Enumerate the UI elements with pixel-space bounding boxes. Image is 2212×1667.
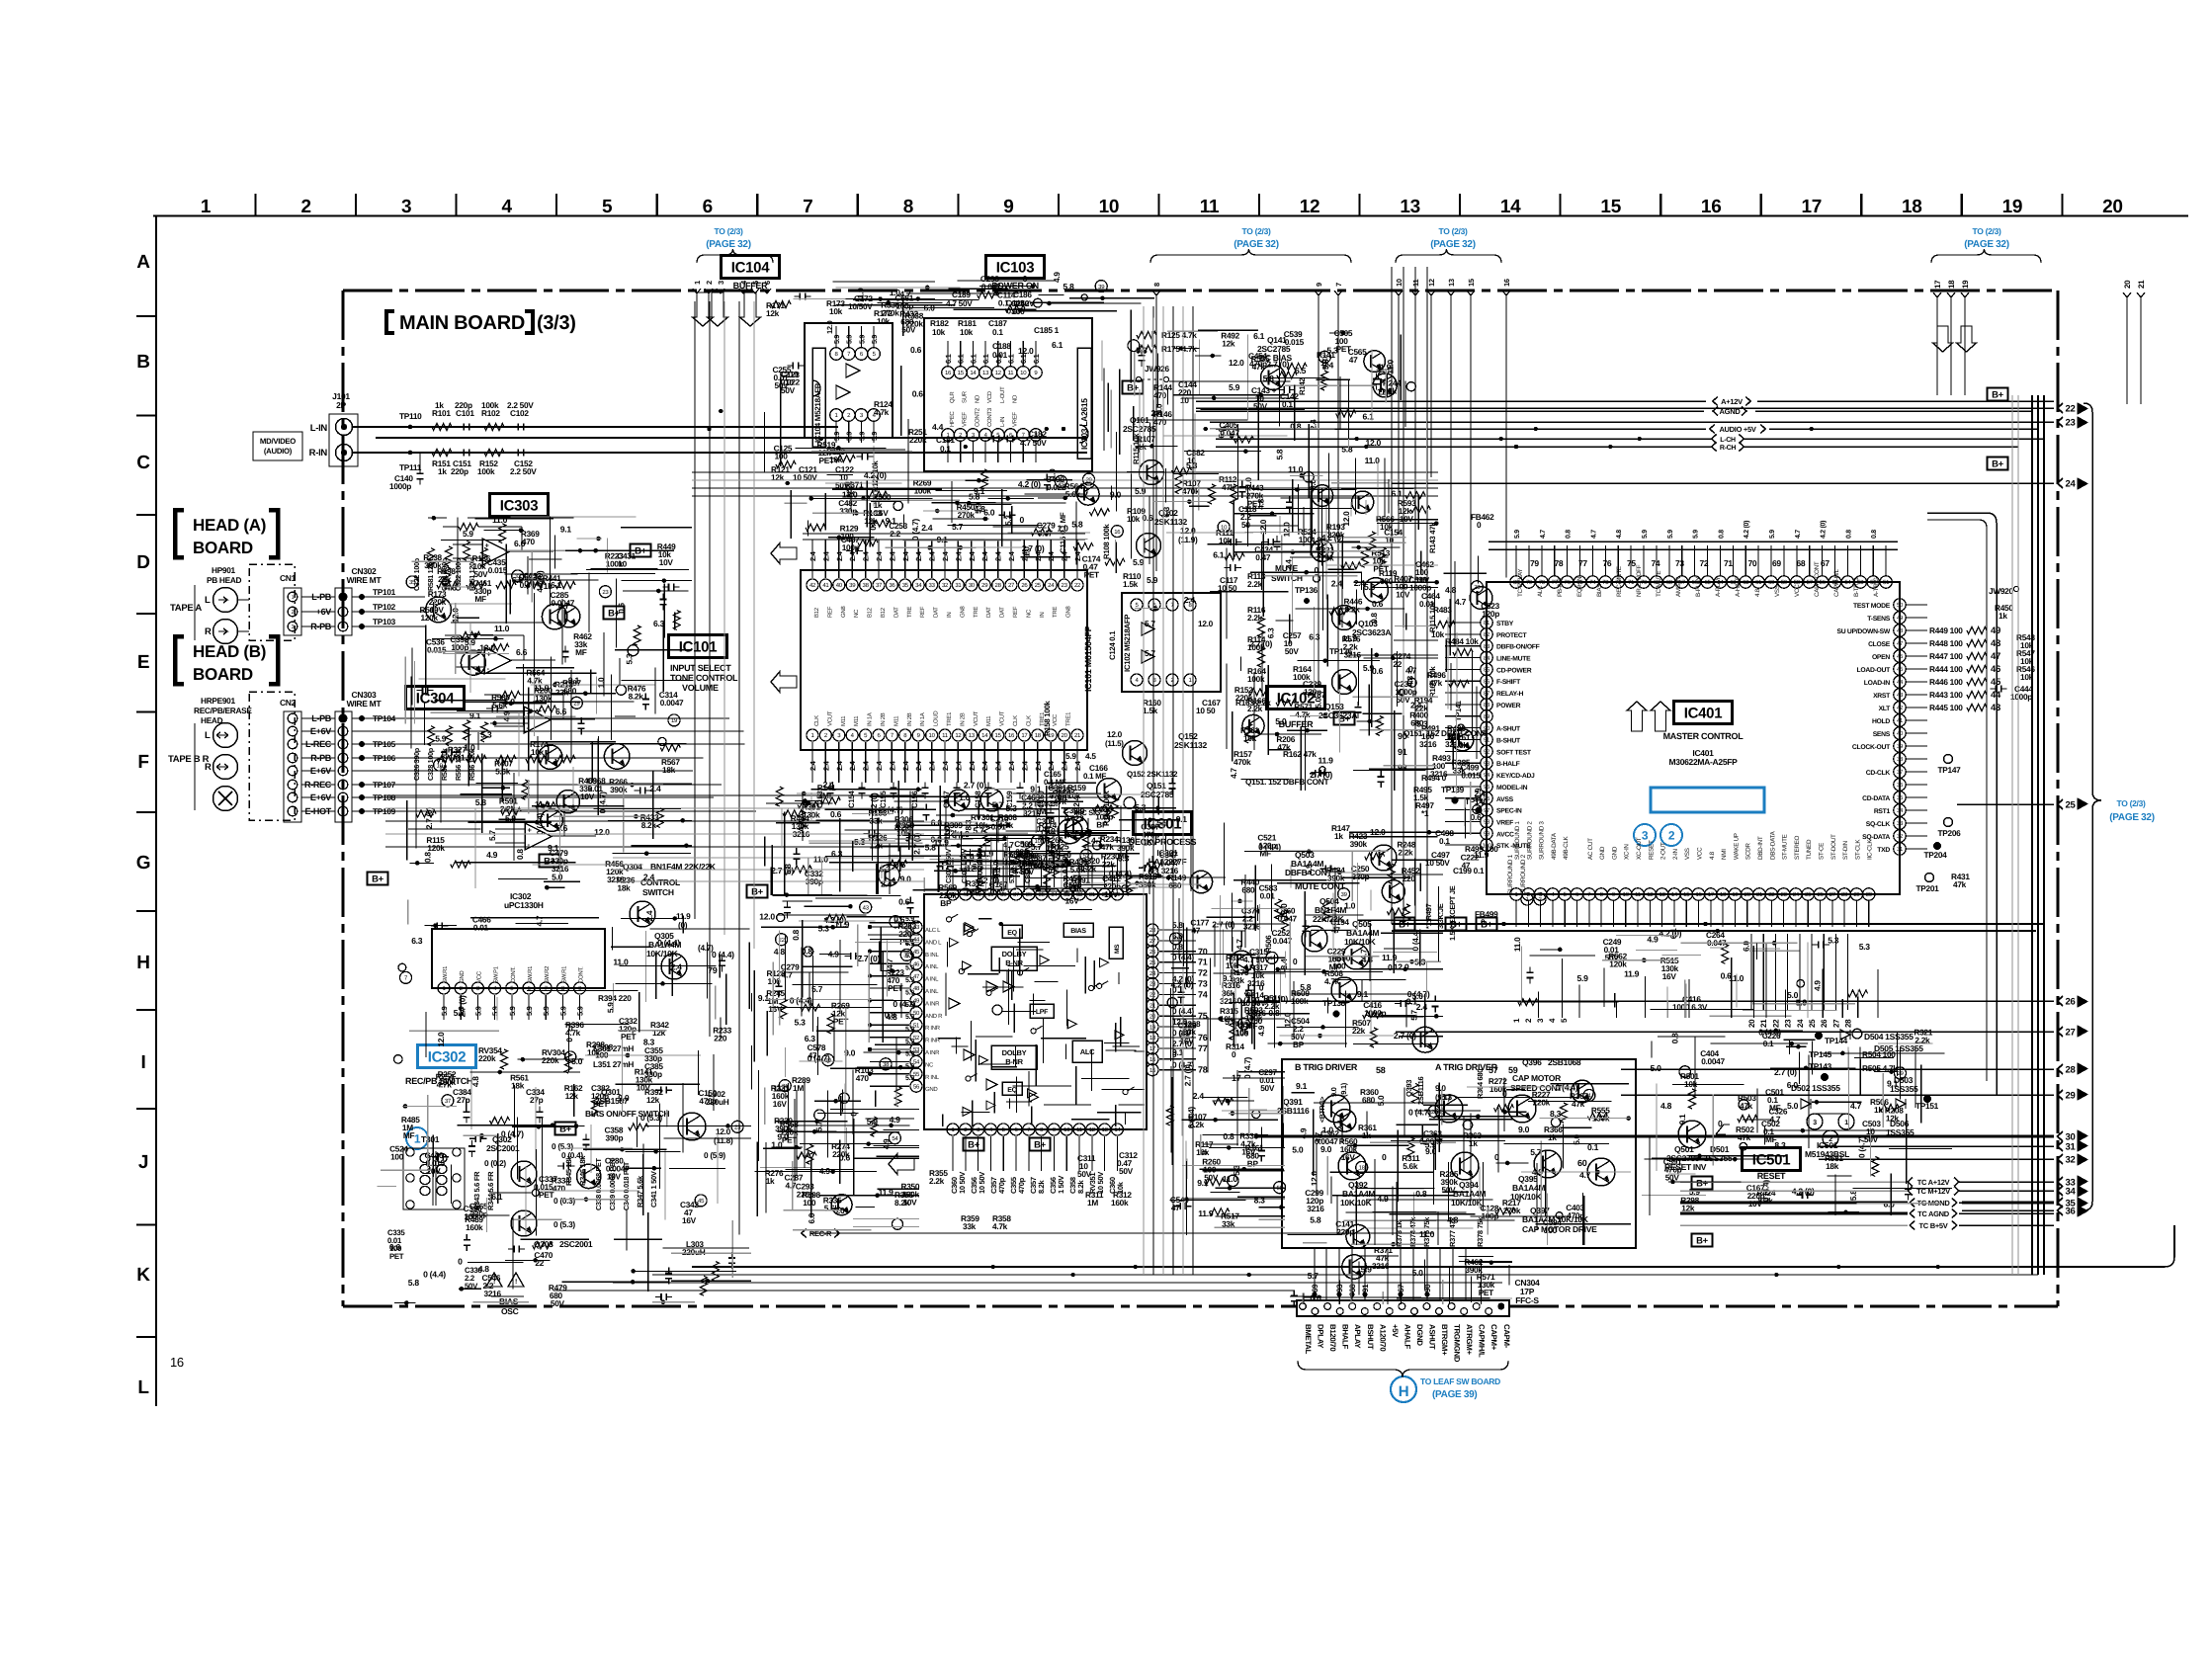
svg-text:40: 40: [1897, 730, 1904, 737]
svg-text:10: 10: [1180, 395, 1189, 405]
svg-text:C: C: [136, 453, 150, 473]
svg-text:6.3: 6.3: [805, 1034, 816, 1043]
svg-text:28: 28: [2066, 1064, 2076, 1075]
svg-text:100: 100: [390, 1151, 404, 1161]
svg-text:37: 37: [876, 582, 883, 589]
svg-text:17: 17: [1708, 891, 1715, 898]
svg-text:6.1: 6.1: [491, 1192, 503, 1202]
svg-text:NC: NC: [925, 1061, 934, 1068]
svg-text:IN 2B: IN 2B: [959, 712, 966, 726]
svg-text:34: 34: [2066, 1186, 2077, 1197]
svg-text:L-OUT: L-OUT: [999, 386, 1006, 403]
svg-text:XC-IN: XC-IN: [1624, 844, 1631, 860]
svg-text:DAT: DAT: [933, 607, 940, 618]
svg-text:B+: B+: [1127, 382, 1140, 393]
svg-text:R INR: R INR: [925, 1025, 941, 1032]
svg-text:XRST: XRST: [1873, 693, 1891, 700]
svg-text:2.7 (0): 2.7 (0): [1022, 543, 1045, 553]
svg-text:CONT2: CONT2: [974, 407, 980, 427]
svg-text:DBS-DATA: DBS-DATA: [1769, 830, 1776, 860]
svg-text:Q152 2SK1132: Q152 2SK1132: [1127, 770, 1178, 779]
svg-text:9.0: 9.0: [1329, 1087, 1338, 1097]
svg-text:0.0047: 0.0047: [660, 698, 684, 708]
svg-text:6.0: 6.0: [983, 508, 995, 518]
svg-text:130k: 130k: [439, 1077, 457, 1087]
svg-text:0 (4.4): 0 (4.4): [423, 1269, 446, 1279]
svg-text:68: 68: [1666, 579, 1673, 586]
svg-text:58: 58: [1376, 1065, 1386, 1075]
svg-text:33: 33: [1897, 820, 1904, 827]
svg-text:CN1: CN1: [280, 573, 297, 583]
svg-text:uPC1330H: uPC1330H: [504, 900, 544, 910]
svg-text:12.0: 12.0: [1283, 1012, 1293, 1028]
svg-text:13: 13: [1102, 1126, 1109, 1133]
svg-text:50: 50: [1897, 602, 1904, 609]
svg-text:6.3: 6.3: [1266, 627, 1276, 638]
svg-text:5.9: 5.9: [1361, 1264, 1373, 1274]
svg-text:47: 47: [1462, 860, 1471, 870]
svg-text:5.8: 5.8: [408, 1278, 420, 1288]
svg-text:3.3K:JE: 3.3K:JE: [1436, 903, 1445, 929]
svg-text:45: 45: [1897, 666, 1904, 673]
svg-text:R143 47k: R143 47k: [1428, 522, 1437, 553]
svg-text:MF: MF: [403, 1130, 415, 1140]
svg-text:35: 35: [1039, 891, 1046, 898]
svg-text:CONT3: CONT3: [986, 407, 993, 427]
svg-text:5.3: 5.3: [1441, 1092, 1453, 1102]
svg-text:20: 20: [1744, 891, 1751, 898]
svg-text:26: 26: [1021, 582, 1028, 589]
svg-text:(PAGE 32): (PAGE 32): [1234, 239, 1278, 250]
svg-text:83: 83: [1484, 643, 1490, 650]
svg-text:84: 84: [1484, 655, 1490, 662]
svg-text:12.0: 12.0: [759, 912, 775, 922]
svg-text:1.0: 1.0: [596, 677, 606, 688]
svg-text:78: 78: [1539, 579, 1546, 586]
svg-text:0 (4.4): 0 (4.4): [712, 950, 734, 959]
svg-text:SW.R1: SW.R1: [560, 965, 567, 983]
svg-text:98: 98: [1484, 819, 1490, 826]
svg-text:470p: 470p: [699, 1096, 717, 1106]
svg-text:26: 26: [1820, 1019, 1829, 1028]
svg-text:STEREO: STEREO: [1794, 836, 1801, 860]
svg-text:680: 680: [967, 886, 980, 896]
svg-text:88: 88: [1484, 702, 1490, 708]
svg-text:10V: 10V: [580, 792, 595, 801]
svg-text:DOLBY: DOLBY: [1002, 950, 1027, 959]
svg-text:B: B: [136, 352, 149, 373]
svg-text:5.8: 5.8: [1172, 920, 1183, 930]
svg-text:9.1: 9.1: [1197, 1178, 1209, 1188]
svg-text:IN 1A: IN 1A: [867, 712, 874, 726]
svg-text:(PAGE 32): (PAGE 32): [2109, 812, 2154, 823]
svg-text:10: 10: [437, 762, 444, 769]
svg-text:0.01: 0.01: [473, 922, 489, 932]
svg-text:1: 1: [414, 1132, 421, 1146]
svg-text:160k: 160k: [1111, 1198, 1129, 1208]
svg-text:2.4: 2.4: [921, 523, 933, 533]
svg-text:R-IN: R-IN: [309, 448, 328, 458]
svg-text:8.2k: 8.2k: [1076, 1179, 1085, 1194]
svg-text:4.9: 4.9: [486, 850, 498, 860]
svg-text:2SK1132: 2SK1132: [1174, 740, 1207, 750]
svg-text:C185 1: C185 1: [1034, 325, 1060, 335]
svg-text:16V: 16V: [1662, 971, 1677, 981]
svg-text:10 50V: 10 50V: [978, 1172, 986, 1194]
svg-text:11.0: 11.0: [1419, 1229, 1435, 1239]
svg-text:HEAD (A): HEAD (A): [193, 516, 266, 535]
svg-text:(PAGE 39): (PAGE 39): [1432, 1389, 1477, 1400]
svg-text:5.0: 5.0: [1292, 1145, 1304, 1155]
svg-text:5.7: 5.7: [952, 522, 964, 532]
svg-text:5.6k: 5.6k: [1403, 1161, 1418, 1171]
svg-text:10k: 10k: [1127, 514, 1141, 524]
svg-text:16: 16: [1701, 197, 1722, 217]
svg-text:VCUT: VCUT: [973, 710, 979, 726]
svg-text:50V: 50V: [901, 325, 916, 335]
svg-text:120p: 120p: [1304, 687, 1321, 697]
svg-text:70: 70: [1748, 558, 1757, 568]
svg-text:12: 12: [995, 370, 1002, 376]
svg-text:0.8: 0.8: [802, 946, 813, 956]
svg-text:0.8: 0.8: [1223, 1131, 1234, 1141]
svg-text:87: 87: [1484, 690, 1490, 697]
svg-text:E: E: [137, 652, 149, 673]
svg-text:MF: MF: [575, 647, 587, 657]
svg-text:5.9: 5.9: [1693, 530, 1700, 539]
svg-text:470p: 470p: [997, 1177, 1006, 1194]
svg-text:9.0: 9.0: [1320, 1144, 1332, 1154]
svg-text:A INR: A INR: [925, 1049, 940, 1056]
svg-text:5.9: 5.9: [1514, 530, 1521, 539]
svg-text:24: 24: [1793, 891, 1800, 898]
svg-text:70: 70: [1198, 947, 1208, 957]
svg-text:470: 470: [553, 1184, 566, 1194]
svg-text:2.4: 2.4: [1283, 559, 1293, 570]
svg-text:GND: GND: [925, 1086, 938, 1093]
svg-text:TEST MODE: TEST MODE: [1853, 603, 1891, 610]
svg-text:100: 100: [1299, 535, 1313, 544]
svg-text:0.8: 0.8: [1845, 530, 1852, 539]
svg-text:16: 16: [170, 1355, 184, 1370]
svg-text:JW920: JW920: [1989, 586, 2013, 596]
svg-text:CAPM-CONT: CAPM-CONT: [1814, 561, 1821, 597]
svg-text:6: 6: [763, 281, 772, 285]
svg-text:0 (5.3): 0 (5.3): [553, 1219, 575, 1229]
svg-text:23: 23: [602, 589, 609, 596]
svg-text:17: 17: [1802, 197, 1823, 217]
svg-text:R444 100: R444 100: [1929, 664, 1963, 674]
svg-text:77: 77: [1198, 1043, 1208, 1053]
svg-text:23: 23: [1784, 1019, 1793, 1028]
svg-text:IC101: IC101: [679, 638, 718, 655]
svg-text:75: 75: [1627, 558, 1636, 568]
svg-text:SURROUND 2: SURROUND 2: [1520, 854, 1527, 894]
svg-text:4.7: 4.7: [1234, 939, 1244, 950]
svg-text:4.7k: 4.7k: [992, 1221, 1008, 1231]
svg-text:JW926: JW926: [1145, 364, 1169, 374]
svg-text:50: 50: [1241, 520, 1250, 530]
svg-text:GN8: GN8: [1065, 606, 1072, 618]
svg-text:470p: 470p: [1567, 1210, 1584, 1220]
svg-text:6.1: 6.1: [1253, 331, 1265, 341]
svg-text:50V: 50V: [1119, 1166, 1134, 1176]
svg-text:VREF: VREF: [962, 412, 969, 427]
svg-text:ST-CLK: ST-CLK: [1854, 839, 1861, 860]
svg-text:2SB1068: 2SB1068: [1548, 1057, 1581, 1067]
svg-text:78: 78: [1198, 1065, 1208, 1075]
svg-text:9.1: 9.1: [1223, 973, 1234, 983]
svg-text:74: 74: [1652, 558, 1660, 568]
svg-text:TONE CONTROL: TONE CONTROL: [670, 673, 738, 683]
svg-text:21: 21: [1756, 891, 1763, 898]
svg-text:0 (0.2): 0 (0.2): [484, 1158, 506, 1168]
svg-text:IC104: IC104: [731, 259, 770, 276]
svg-text:DBD-INT: DBD-INT: [1757, 836, 1764, 860]
svg-text:F: F: [137, 752, 148, 773]
svg-text:M30622MA-A25FP: M30622MA-A25FP: [1668, 757, 1738, 767]
svg-text:9.0: 9.0: [1153, 403, 1163, 414]
svg-text:2.7 (0): 2.7 (0): [424, 807, 434, 829]
svg-text:XLT: XLT: [1879, 706, 1892, 712]
svg-text:TO (2/3): TO (2/3): [714, 226, 743, 236]
svg-text:0 (5.9): 0 (5.9): [704, 1150, 725, 1160]
svg-text:TC A+12V: TC A+12V: [1917, 1178, 1950, 1187]
svg-text:35: 35: [902, 582, 909, 589]
svg-text:A-SHUT: A-SHUT: [1496, 726, 1521, 733]
svg-text:5.9: 5.9: [1577, 973, 1589, 983]
svg-text:1000p: 1000p: [389, 481, 411, 491]
svg-text:14: 14: [1114, 1126, 1121, 1133]
svg-text:TAPE B R: TAPE B R: [168, 754, 210, 765]
svg-text:B+: B+: [1696, 1235, 1709, 1246]
svg-text:5.6k: 5.6k: [1453, 740, 1469, 750]
svg-text:71: 71: [1724, 558, 1733, 568]
svg-text:PB-A/B: PB-A/B: [1557, 578, 1564, 597]
svg-text:PET: PET: [1084, 570, 1099, 580]
svg-text:0 (4.7): 0 (4.7): [1242, 1056, 1252, 1078]
svg-text:220p: 220p: [451, 466, 468, 476]
svg-text:AMS-IN: AMS-IN: [1675, 576, 1682, 597]
svg-text:10: 10: [1385, 535, 1394, 544]
svg-text:16: 16: [1114, 529, 1121, 536]
svg-text:4.7 50V: 4.7 50V: [1020, 438, 1047, 448]
svg-text:0.0047: 0.0047: [1701, 1056, 1725, 1066]
svg-text:2: 2: [705, 281, 714, 285]
svg-text:71: 71: [1628, 579, 1635, 586]
svg-text:5.8: 5.8: [475, 797, 487, 807]
svg-text:10V: 10V: [903, 1197, 918, 1207]
svg-text:390k: 390k: [1350, 839, 1368, 849]
svg-text:23: 23: [1781, 891, 1788, 898]
svg-text:4.9: 4.9: [890, 1115, 901, 1125]
svg-text:R483: R483: [1433, 605, 1452, 615]
svg-text:79: 79: [1526, 579, 1533, 586]
svg-text:39: 39: [1897, 743, 1904, 750]
svg-text:5.0: 5.0: [571, 1056, 583, 1066]
svg-text:T301: T301: [421, 1134, 440, 1144]
svg-text:11.9: 11.9: [1319, 755, 1334, 765]
svg-text:86: 86: [1484, 679, 1490, 686]
svg-text:60: 60: [1577, 1158, 1587, 1168]
svg-text:71: 71: [1198, 958, 1208, 967]
svg-text:1.0: 1.0: [1322, 1125, 1334, 1135]
svg-text:79: 79: [1530, 558, 1539, 568]
svg-text:10V: 10V: [430, 605, 445, 615]
svg-text:12k: 12k: [1886, 1113, 1900, 1123]
svg-text:TC B+5V: TC B+5V: [1919, 1221, 1948, 1230]
svg-text:5.0: 5.0: [1376, 1095, 1386, 1106]
svg-text:2P: 2P: [336, 400, 346, 410]
svg-text:ND: ND: [1012, 394, 1019, 403]
svg-text:EQ-H/N: EQ-H/N: [1576, 576, 1583, 597]
svg-text:BIAS: BIAS: [1596, 584, 1603, 597]
svg-text:12: 12: [1300, 197, 1320, 217]
svg-text:LOAD-OUT: LOAD-OUT: [1857, 667, 1892, 674]
svg-text:16: 16: [945, 370, 952, 376]
svg-text:A INR: A INR: [925, 1000, 940, 1007]
svg-text:RST1: RST1: [1874, 808, 1891, 815]
svg-text:94: 94: [1484, 772, 1490, 779]
svg-text:TAPE A: TAPE A: [170, 603, 202, 614]
svg-text:VSS: VSS: [1684, 848, 1691, 860]
svg-text:2.7 (0): 2.7 (0): [1249, 639, 1272, 649]
svg-text:27p: 27p: [457, 1095, 470, 1105]
svg-text:VCC: VCC: [1794, 584, 1801, 597]
svg-text:6.6: 6.6: [516, 647, 528, 657]
svg-text:TP101: TP101: [373, 587, 396, 597]
svg-text:37: 37: [1013, 891, 1020, 898]
svg-text:12.0: 12.0: [594, 827, 610, 837]
svg-text:VCC: VCC: [1052, 713, 1059, 726]
svg-text:A120/70: A120/70: [1378, 1324, 1387, 1352]
svg-text:1: 1: [292, 595, 295, 601]
svg-text:CLK: CLK: [1012, 715, 1019, 726]
svg-text:0: 0: [1388, 962, 1393, 972]
svg-text:47k: 47k: [1277, 742, 1291, 752]
svg-text:VCUT: VCUT: [999, 710, 1006, 726]
svg-text:55: 55: [913, 1071, 920, 1078]
svg-text:IC304: IC304: [416, 690, 455, 707]
svg-text:MF: MF: [1329, 962, 1341, 972]
svg-text:R346 18k: R346 18k: [578, 1155, 587, 1186]
svg-text:12k: 12k: [652, 1028, 666, 1038]
svg-text:9.0: 9.0: [1518, 1125, 1530, 1134]
svg-text:120k: 120k: [427, 843, 445, 853]
svg-text:5.9: 5.9: [905, 977, 914, 984]
svg-text:2.4: 2.4: [1410, 701, 1422, 710]
svg-text:47: 47: [808, 1050, 817, 1060]
svg-text:46: 46: [1897, 653, 1904, 660]
svg-text:TP103: TP103: [373, 617, 396, 626]
svg-text:A INL: A INL: [925, 963, 939, 970]
svg-text:B-NR: B-NR: [1005, 1057, 1023, 1066]
svg-text:IN 2B: IN 2B: [906, 712, 913, 726]
svg-text:TRGMGND: TRGMGND: [1453, 1324, 1462, 1363]
svg-text:C341 1 50V: C341 1 50V: [649, 1171, 658, 1208]
svg-text:7: 7: [1334, 283, 1343, 287]
svg-text:76: 76: [1198, 1033, 1208, 1042]
svg-text:25: 25: [1035, 582, 1042, 589]
svg-text:8: 8: [903, 197, 913, 217]
svg-text:49: 49: [1991, 625, 2000, 636]
svg-text:R INL: R INL: [925, 1074, 940, 1081]
svg-text:5.7: 5.7: [487, 830, 497, 841]
svg-text:220k: 220k: [478, 1053, 496, 1063]
svg-text:NC: NC: [853, 609, 860, 618]
svg-text:4.8: 4.8: [1660, 1101, 1672, 1111]
svg-text:47k: 47k: [1101, 842, 1115, 852]
svg-text:1000 6.3V: 1000 6.3V: [1672, 1002, 1708, 1012]
svg-text:SQ-DATA: SQ-DATA: [1862, 834, 1890, 841]
svg-text:D502 1SS355: D502 1SS355: [1791, 1083, 1840, 1093]
svg-text:14: 14: [1500, 197, 1521, 217]
svg-text:R108 100k: R108 100k: [1102, 524, 1111, 559]
svg-text:470: 470: [522, 537, 536, 546]
svg-text:STBY: STBY: [1496, 621, 1514, 627]
svg-text:WIRE MT: WIRE MT: [347, 575, 383, 585]
svg-text:PB HEAD: PB HEAD: [207, 575, 242, 585]
svg-text:WIRE MT: WIRE MT: [347, 699, 383, 708]
svg-text:0.8: 0.8: [791, 929, 801, 940]
svg-text:0.8: 0.8: [423, 852, 433, 863]
svg-text:CONT.: CONT.: [510, 966, 517, 983]
svg-text:4.7k: 4.7k: [527, 676, 543, 686]
svg-text:12: 12: [1647, 891, 1654, 898]
svg-text:1M: 1M: [1035, 806, 1046, 816]
svg-text:10V: 10V: [1400, 514, 1414, 524]
svg-text:28: 28: [1844, 1019, 1853, 1028]
svg-text:1.0: 1.0: [1021, 839, 1033, 849]
svg-text:CLK: CLK: [1025, 715, 1032, 726]
svg-text:B+: B+: [1992, 389, 2004, 400]
svg-text:99: 99: [1484, 831, 1490, 838]
svg-text:12.0: 12.0: [1229, 358, 1244, 368]
svg-text:21: 21: [2137, 280, 2146, 289]
svg-text:DPLAY: DPLAY: [1317, 1324, 1325, 1349]
svg-text:DGND: DGND: [1415, 1324, 1424, 1346]
svg-text:MS: MS: [1114, 944, 1121, 954]
svg-text:PET: PET: [621, 1032, 636, 1042]
svg-text:93: 93: [1398, 763, 1407, 773]
svg-text:CAPM+: CAPM+: [1489, 1324, 1498, 1351]
svg-text:2.2 50V: 2.2 50V: [510, 466, 537, 476]
svg-text:1 50V: 1 50V: [1057, 1176, 1065, 1194]
svg-text:3216: 3216: [1220, 996, 1237, 1006]
svg-text:ALC: ALC: [1537, 585, 1544, 597]
svg-text:6.1: 6.1: [1213, 550, 1225, 560]
svg-text:FB462: FB462: [1471, 512, 1494, 522]
svg-text:2.2k: 2.2k: [1247, 579, 1263, 589]
svg-text:18: 18: [1902, 197, 1922, 217]
svg-text:5.0: 5.0: [1787, 1101, 1799, 1111]
svg-text:HRPE901: HRPE901: [201, 696, 235, 706]
svg-text:10k: 10k: [877, 316, 891, 326]
svg-text:ST-DOUT: ST-DOUT: [1830, 834, 1837, 860]
svg-text:0.1: 0.1: [992, 327, 1003, 337]
svg-text:85: 85: [1484, 667, 1490, 674]
svg-text:MF: MF: [1259, 848, 1271, 858]
svg-text:11: 11: [1200, 197, 1220, 217]
svg-text:54: 54: [892, 1135, 898, 1142]
svg-text:AVCC: AVCC: [1496, 831, 1514, 838]
svg-text:MODEL-IN: MODEL-IN: [1496, 785, 1528, 792]
svg-text:R-CH: R-CH: [1720, 445, 1737, 452]
svg-text:42: 42: [1897, 705, 1904, 711]
svg-text:GND: GND: [459, 970, 466, 983]
svg-text:50V: 50V: [1605, 953, 1620, 962]
svg-text:R447 100: R447 100: [1929, 651, 1963, 661]
